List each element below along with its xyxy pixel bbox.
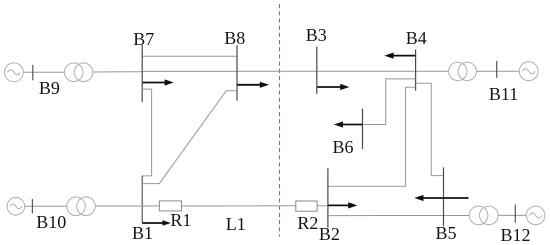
transformer T10 [67, 197, 86, 216]
dashed boundary line [279, 4, 281, 237]
bus B3 [316, 47, 318, 94]
wire transformer to R2 (passes B1, under R1 box) [95, 205, 296, 207]
bus B6 [362, 109, 364, 149]
wire top-left: generator to transformer [23, 71, 65, 73]
label L1 [226, 215, 246, 233]
arrow at B3 [317, 84, 349, 90]
label B7 [133, 30, 154, 48]
wire B3 to B4 [317, 70, 416, 72]
label B1 [132, 224, 153, 242]
wire bottom-left: generator to transformer [25, 205, 68, 207]
arrow at B8 [237, 82, 269, 88]
bus tick B10 [31, 199, 33, 213]
line B4 to B6 [362, 79, 416, 125]
bus tick B9 [32, 65, 34, 80]
bus B4 [415, 49, 417, 90]
arrow at B4 (pointing left) [384, 53, 415, 59]
label B6 [333, 138, 354, 156]
generator G12 (bottom right) [526, 206, 545, 225]
line B4 to B2 [328, 87, 416, 186]
wire B7 to B8 (main line) [142, 70, 237, 72]
label B9 [39, 79, 60, 97]
label R2 [297, 214, 318, 232]
resistor R2 [296, 201, 317, 211]
label B11 [489, 85, 518, 103]
arrow at B5 (pointing left) [414, 195, 468, 201]
arrow at B7 [143, 79, 174, 85]
label B2 [319, 225, 340, 243]
line B7 to B1 (with jog) [142, 89, 151, 176]
arrow at B6 (pointing left) [334, 121, 362, 127]
arrow at B1 [142, 220, 171, 225]
bus tick B11 [496, 61, 498, 78]
line B4 to B5 [416, 83, 444, 175]
transformer T12 [469, 206, 488, 225]
generator G9 (top left) [5, 63, 24, 82]
label B8 [224, 29, 245, 47]
label B3 [306, 26, 327, 44]
transformer T9 (two overlapping circles) [64, 63, 83, 82]
wire transformer to B7 [93, 71, 143, 73]
label B10 [36, 213, 66, 231]
generator G11 (top right) [519, 62, 538, 81]
transformer T11 (top right) [449, 62, 467, 80]
label B5 [436, 224, 457, 242]
wire right transformer to B11 tick and generator [476, 70, 519, 72]
arrow at B2 [328, 202, 357, 208]
bus tick B12 [514, 205, 516, 223]
generator G10 (bottom left) [7, 198, 25, 216]
wire B4 to right transformer [416, 70, 449, 72]
bus B7 [141, 45, 143, 102]
wire R2 to B2 [317, 205, 328, 207]
wire bottom-right: B2 to B5 to transformer [328, 215, 469, 217]
bus B5 [443, 167, 445, 226]
label B4 [406, 29, 427, 47]
wire transformer to B12 tick and generator [498, 214, 526, 216]
bus B8 [236, 45, 238, 101]
resistor R1 [159, 201, 181, 211]
bus B2 [327, 168, 329, 228]
line B8 to B1 (diagonal) [142, 91, 237, 184]
wire B7 to B8 (upper parallel line) [142, 55, 237, 57]
bus/lead B1 vertical [141, 176, 143, 223]
label R1 [170, 211, 191, 229]
label B12 [501, 226, 531, 244]
wire B8 across dashed boundary to B3 [237, 70, 317, 72]
